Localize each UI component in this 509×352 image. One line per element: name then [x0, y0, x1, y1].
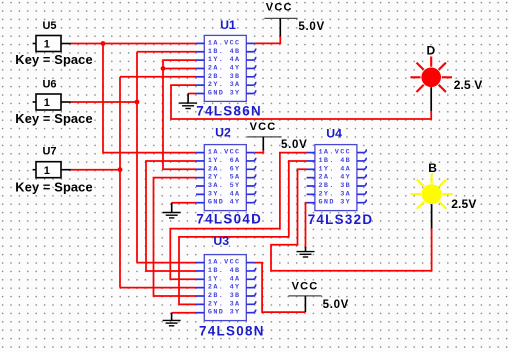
svg-text:Key = Space: Key = Space	[15, 111, 92, 126]
svg-text:2B. 3B: 2B. 3B	[208, 73, 241, 81]
svg-text:2Y. 5A: 2Y. 5A	[208, 174, 241, 182]
svg-text:74LS32D: 74LS32D	[308, 212, 374, 227]
svg-text:5.0V: 5.0V	[323, 299, 349, 311]
svg-text:1Y. 4A: 1Y. 4A	[208, 56, 241, 64]
svg-text:U3: U3	[213, 234, 229, 248]
svg-text:1A.VCC: 1A.VCC	[319, 149, 352, 157]
svg-text:Key = Space: Key = Space	[15, 180, 92, 195]
svg-text:2A. 4Y: 2A. 4Y	[319, 174, 352, 182]
svg-text:1B. 4B: 1B. 4B	[208, 267, 241, 275]
svg-text:2B. 3B: 2B. 3B	[208, 292, 241, 300]
svg-text:2B. 3B: 2B. 3B	[319, 182, 352, 190]
svg-text:1A.VCC: 1A.VCC	[208, 259, 241, 267]
svg-text:U5: U5	[42, 20, 56, 32]
svg-text:VCC: VCC	[292, 281, 319, 293]
svg-text:GND 3Y: GND 3Y	[208, 309, 241, 317]
svg-text:U1: U1	[220, 18, 236, 32]
svg-text:Key = Space: Key = Space	[15, 52, 92, 67]
svg-text:3Y. 4A: 3Y. 4A	[208, 190, 241, 198]
svg-text:1: 1	[44, 39, 50, 51]
svg-text:U2: U2	[215, 125, 231, 139]
svg-text:1: 1	[44, 97, 50, 109]
svg-text:1Y. 4A: 1Y. 4A	[319, 165, 352, 173]
svg-text:2.5V: 2.5V	[451, 197, 476, 211]
svg-text:D: D	[426, 44, 435, 58]
svg-text:U4: U4	[326, 126, 342, 140]
svg-text:U7: U7	[42, 146, 56, 158]
svg-text:2A. 6Y: 2A. 6Y	[208, 165, 241, 173]
svg-text:1A.VCC: 1A.VCC	[208, 149, 241, 157]
svg-text:GND 3Y: GND 3Y	[208, 90, 241, 98]
svg-text:2.5 V: 2.5 V	[454, 78, 483, 92]
svg-text:VCC: VCC	[250, 121, 277, 133]
svg-text:1A.VCC: 1A.VCC	[208, 39, 241, 47]
svg-text:1B. 4B: 1B. 4B	[319, 157, 352, 165]
svg-text:U6: U6	[42, 79, 56, 91]
svg-text:GND 3Y: GND 3Y	[319, 199, 352, 207]
svg-text:2A. 4Y: 2A. 4Y	[208, 284, 241, 292]
svg-text:2Y. 3A: 2Y. 3A	[319, 190, 352, 198]
svg-text:74LS86N: 74LS86N	[196, 104, 262, 119]
svg-text:2A. 4Y: 2A. 4Y	[208, 64, 241, 72]
svg-text:3A. 5Y: 3A. 5Y	[208, 182, 241, 190]
svg-text:5.0V: 5.0V	[281, 139, 307, 151]
svg-text:2Y. 3A: 2Y. 3A	[208, 81, 241, 89]
svg-text:1: 1	[44, 165, 50, 177]
svg-text:1Y. 6A: 1Y. 6A	[208, 157, 241, 165]
svg-text:GND 4Y: GND 4Y	[208, 199, 241, 207]
svg-text:5.0V: 5.0V	[298, 21, 324, 33]
svg-text:74LS08N: 74LS08N	[199, 324, 265, 339]
svg-text:B: B	[428, 161, 437, 175]
svg-text:1B. 4B: 1B. 4B	[208, 48, 241, 56]
svg-text:1Y. 4A: 1Y. 4A	[208, 275, 241, 283]
svg-text:74LS04D: 74LS04D	[196, 212, 262, 227]
svg-text:VCC: VCC	[266, 2, 293, 14]
svg-text:2Y. 3A: 2Y. 3A	[208, 300, 241, 308]
